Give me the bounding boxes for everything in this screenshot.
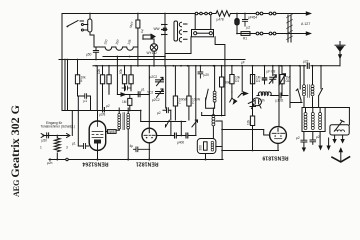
switch top right	[320, 66, 322, 89]
svg-text:WY142: WY142	[147, 51, 158, 55]
choke Drth	[257, 92, 275, 96]
svg-text:3: 3	[66, 146, 68, 150]
svg-text:µ2/8: µ2/8	[99, 113, 105, 117]
dial scale box	[192, 30, 214, 37]
svg-text:µF: µF	[241, 61, 245, 65]
series cap on bus right	[306, 65, 310, 67]
tube V2 REN1821	[142, 128, 157, 143]
svg-text:µ2C2: µ2C2	[152, 98, 160, 102]
bottom rail	[49, 159, 223, 161]
svg-text:4µ: 4µ	[130, 144, 134, 148]
coupling caps	[175, 133, 177, 138]
svg-text:135: 135	[127, 39, 133, 46]
socket B	[252, 98, 261, 106]
wire avc	[116, 57, 118, 95]
wire dial drop	[165, 37, 191, 54]
capacitor on string	[78, 94, 90, 99]
resistor 1M	[129, 95, 131, 99]
coil input	[56, 136, 58, 139]
output transformer box	[302, 108, 325, 132]
resistor 10kW b	[188, 66, 190, 96]
capacitor cathode t1	[78, 144, 88, 149]
svg-text:12k: 12k	[247, 119, 251, 125]
svg-text:5: 5	[81, 79, 83, 83]
svg-text:C: C	[192, 101, 195, 105]
svg-text:AEG Geatrix 302 G: AEG Geatrix 302 G	[8, 105, 22, 197]
resistor M47	[137, 14, 139, 21]
svg-text:µ1: µ1	[141, 88, 145, 92]
series cap vert	[198, 66, 203, 78]
svg-text:A 127: A 127	[301, 22, 310, 26]
resistor anode 0W8	[106, 131, 108, 133]
svg-text:150: 150	[115, 39, 121, 46]
svg-text:µ2: µ2	[106, 104, 110, 108]
svg-text:300: 300	[199, 145, 203, 151]
wire	[90, 32, 94, 47]
trimmer cap mid	[272, 66, 274, 76]
volume pot 1M	[281, 66, 283, 75]
switch right	[296, 89, 301, 100]
svg-text:µ2C2: µ2C2	[150, 75, 158, 79]
earth	[340, 151, 342, 162]
cap on W_A	[103, 108, 105, 113]
svg-text:R1: R1	[243, 37, 247, 41]
input text	[41, 121, 76, 129]
svg-text:M47: M47	[129, 21, 135, 28]
svg-text:µ2: µ2	[316, 135, 320, 139]
coil L1	[94, 47, 137, 50]
svg-text:µF C8: µF C8	[267, 70, 276, 74]
fuse pair	[195, 12, 198, 15]
IF transformer 1	[118, 108, 120, 114]
agc arrows	[230, 92, 234, 102]
svg-text:1: 1	[40, 146, 42, 150]
svg-text:µ1: µ1	[84, 99, 88, 103]
wire top rail	[62, 13, 216, 15]
svg-text:Tonabnehmer (Schallpl.): Tonabnehmer (Schallpl.)	[41, 125, 76, 129]
svg-text:WW: WW	[154, 27, 160, 31]
coil mid	[214, 66, 216, 91]
antenna	[339, 42, 341, 46]
resistor R4	[108, 66, 110, 75]
svg-text:YC2: YC2	[147, 91, 153, 95]
speaker transformer box	[330, 125, 349, 135]
band switch assembly	[164, 14, 166, 66]
wire W_A	[62, 110, 141, 112]
wire left frame	[61, 14, 63, 111]
switch g	[166, 120, 170, 127]
capacitor black	[264, 66, 266, 78]
capacitor	[242, 14, 247, 27]
svg-text:RENS1819: RENS1819	[262, 155, 288, 161]
svg-text:µ400: µ400	[177, 141, 184, 145]
wire bus1	[103, 56, 165, 58]
svg-text:µ50: µ50	[42, 139, 48, 143]
resistor mains dropper	[216, 11, 230, 17]
resistor 12k t3	[252, 66, 254, 116]
trimmer	[192, 120, 198, 127]
tube V1 RENS1264	[89, 121, 106, 150]
series cap mid	[279, 93, 281, 98]
svg-text:µ2: µ2	[247, 26, 251, 30]
svg-text:1M: 1M	[122, 100, 127, 104]
resistor R2 10k	[77, 60, 79, 75]
capacitor cathode t2	[134, 147, 150, 152]
connector P1	[88, 19, 92, 32]
svg-text:µ1: µ1	[72, 142, 76, 146]
svg-text:µ4: µ4	[139, 28, 144, 33]
wire input up	[71, 111, 73, 136]
wire antenna down	[339, 51, 341, 66]
resistor 1M	[250, 75, 254, 84]
svg-text:Drth: Drth	[259, 99, 265, 103]
svg-text:µ2: µ2	[296, 136, 300, 140]
resistor 10k right	[231, 66, 233, 75]
fuse Si1	[256, 12, 259, 15]
IF transformer 2	[212, 108, 214, 115]
svg-text:µ10Ω: µ10Ω	[276, 99, 284, 103]
svg-text:µF454: µF454	[248, 16, 257, 20]
svg-text:Ω1: Ω1	[235, 79, 239, 83]
svg-text:C: C	[179, 101, 182, 105]
capacitor avc	[138, 92, 140, 97]
wire	[290, 102, 302, 104]
tube V3 RENS1819	[270, 127, 287, 144]
svg-text:µ20: µ20	[204, 73, 210, 77]
resistor R5 50k	[124, 66, 126, 75]
capacitor series input	[47, 133, 49, 138]
switch S1	[67, 21, 78, 27]
svg-text:100: 100	[103, 39, 109, 46]
svg-text:50k: 50k	[119, 68, 123, 74]
switch mid	[206, 89, 209, 100]
svg-text:µ2h: µ2h	[47, 161, 53, 165]
trimmer stack	[156, 77, 164, 85]
grid cap t3	[248, 101, 255, 107]
fuse Si2	[256, 32, 259, 35]
arrow avc	[121, 93, 125, 96]
wire bus2	[59, 59, 245, 61]
wire grid t3	[222, 129, 264, 131]
svg-text:RENS1264: RENS1264	[82, 161, 108, 167]
svg-text:REN1821: REN1821	[136, 161, 159, 167]
title AEG Geatrix 302 G	[8, 105, 22, 197]
resistor R6	[130, 66, 132, 75]
svg-text:Ω1: Ω1	[286, 79, 290, 83]
svg-text:0W8: 0W8	[108, 130, 115, 134]
transformer core	[288, 15, 291, 42]
below transformer	[303, 132, 305, 141]
terminal arrow lower	[306, 32, 310, 35]
resistor R3 12k	[102, 66, 104, 75]
svg-text:µ50: µ50	[86, 53, 92, 57]
wire bus main	[93, 65, 340, 67]
wire left verticals	[64, 60, 66, 111]
resistor	[241, 32, 250, 36]
resistor 50k	[221, 66, 223, 77]
svg-text:µ478: µ478	[217, 18, 224, 22]
capacitor	[163, 108, 171, 113]
svg-text:50k: 50k	[225, 81, 231, 85]
resonance box 300	[197, 139, 216, 154]
wire ift1 bottom to box	[116, 129, 119, 131]
output transformer top windings	[303, 66, 305, 85]
svg-text:µ2: µ2	[157, 111, 161, 115]
speaker leads	[335, 135, 343, 140]
input line with arrows	[43, 135, 68, 137]
wire	[289, 66, 291, 108]
capacitor	[93, 47, 98, 60]
capacitor mid	[122, 86, 131, 90]
terminal arrow upper	[306, 12, 310, 15]
wire avc lower	[130, 110, 141, 112]
svg-text:µ22: µ22	[303, 60, 309, 64]
dial lamp	[150, 44, 157, 51]
svg-text:Ω1: Ω1	[256, 79, 260, 83]
capacitor electrolytic	[236, 14, 238, 19]
wire t3 cathode	[222, 150, 278, 152]
wire mains lower rail	[237, 33, 307, 35]
resistor 10kW a	[174, 66, 176, 96]
